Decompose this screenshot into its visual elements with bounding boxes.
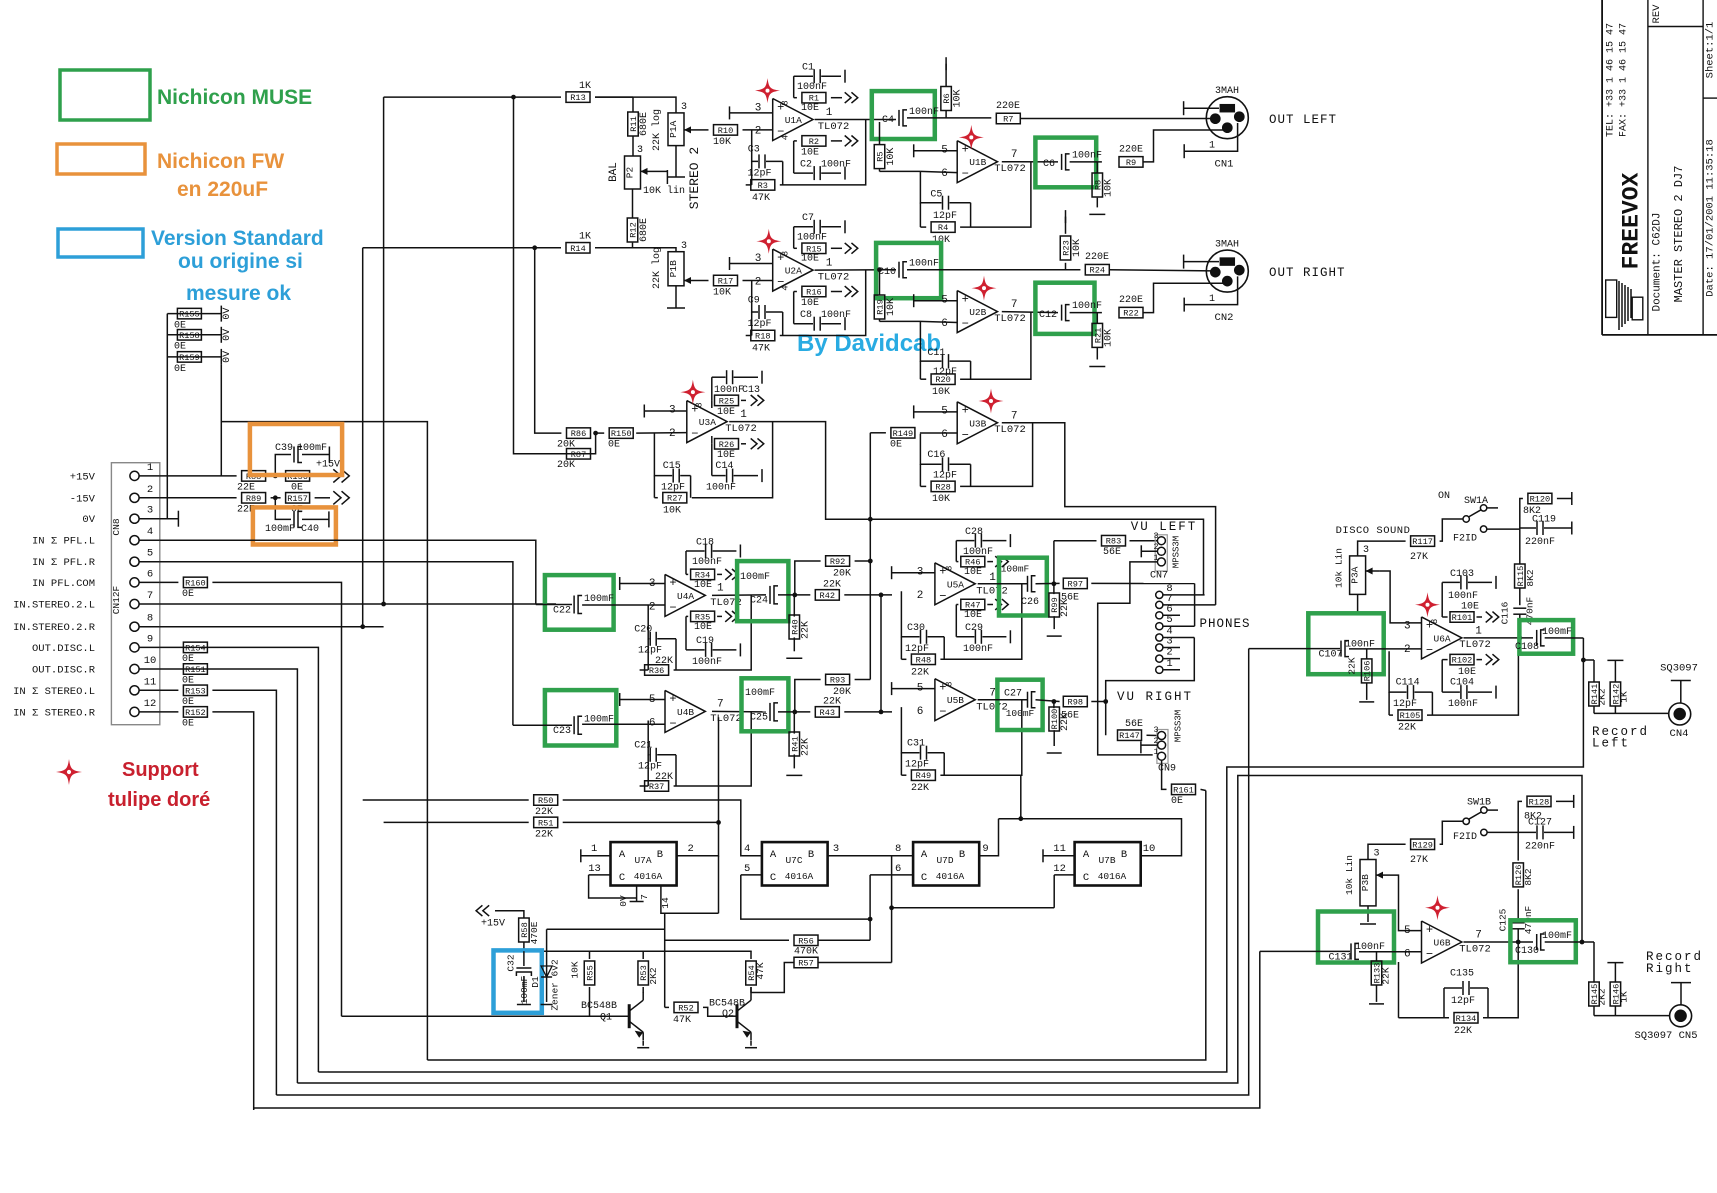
svg-text:22K: 22K [535, 807, 553, 818]
XLR connector CN1 OUT LEFT [1206, 97, 1248, 139]
svg-text:R13: R13 [570, 93, 585, 103]
svg-text:R46: R46 [965, 558, 980, 568]
svg-text:TL072: TL072 [710, 713, 742, 725]
resistor R42 22K [815, 590, 839, 601]
svg-text:1: 1 [740, 409, 747, 421]
svg-text:100nF: 100nF [909, 107, 939, 118]
wire R14 to P1B top [595, 248, 676, 252]
svg-text:U4B: U4B [677, 707, 694, 718]
svg-text:10: 10 [144, 655, 157, 667]
svg-text:0E: 0E [182, 676, 194, 687]
svg-text:10K: 10K [932, 387, 950, 398]
off-page arrow R25 [751, 395, 757, 406]
svg-text:R105: R105 [1400, 711, 1421, 721]
wire R155-R159 left bus down to pin3 [166, 314, 168, 519]
svg-text:100nF: 100nF [909, 259, 939, 270]
svg-text:P2: P2 [625, 167, 636, 179]
resistor R152 0E [183, 707, 207, 718]
tick CN7 pin2 [1140, 545, 1142, 557]
star support U3A [680, 380, 705, 405]
svg-text:R48: R48 [916, 655, 931, 665]
svg-text:C: C [1083, 872, 1089, 884]
svg-text:22K: 22K [1381, 967, 1392, 984]
XLR connector CN2 OUT RIGHT [1206, 250, 1248, 292]
0V tick under U7A pin7 [636, 886, 638, 902]
star support U1A [755, 78, 780, 103]
svg-text:R19: R19 [876, 299, 886, 314]
pin6 U7D wire down [869, 875, 871, 919]
resistor R102 10E [1442, 659, 1447, 661]
phones pin 1 [1156, 666, 1163, 673]
green highlight box C24 [737, 561, 788, 621]
svg-text:−: − [962, 317, 969, 331]
capacitor C130 100mF [1536, 934, 1538, 950]
green highlight box C22 [545, 575, 614, 630]
svg-text:By Davidcab: By Davidcab [797, 330, 941, 357]
connector pin 5 IN Σ PFL.R [130, 557, 139, 566]
resistor R150 0E [609, 428, 633, 439]
svg-text:8K2: 8K2 [1523, 868, 1534, 885]
svg-text:C131: C131 [1328, 952, 1352, 963]
svg-text:TL072: TL072 [725, 423, 757, 435]
svg-text:100nF: 100nF [1072, 151, 1102, 162]
svg-text:0E: 0E [1171, 796, 1183, 807]
svg-text:−: − [691, 427, 698, 441]
svg-text:22K: 22K [823, 579, 841, 590]
svg-text:0E: 0E [890, 439, 902, 450]
resistor R1 10E [793, 76, 795, 98]
wire R117 to SW1A [1440, 519, 1463, 541]
svg-text:MPSS3M: MPSS3M [1174, 710, 1184, 742]
wire from U5A node to R83 [1054, 540, 1097, 542]
resistor R157 0E [286, 493, 310, 504]
svg-text:C108: C108 [1515, 642, 1539, 653]
resistor R24 220E [1085, 264, 1109, 275]
wire 0V rail down from ticks [220, 365, 222, 476]
capacitor C107 100nF [1249, 648, 1340, 650]
svg-text:Zener 6v2: Zener 6v2 [550, 959, 561, 1011]
resistor R97 56E [1063, 578, 1087, 589]
capacitor C21 12pF feedback U4B [648, 721, 649, 755]
resistor R133 22K [1371, 961, 1382, 985]
svg-text:P3A: P3A [1350, 566, 1361, 583]
svg-text:U6A: U6A [1434, 633, 1451, 644]
svg-text:4: 4 [744, 843, 750, 855]
wire R97 to phones pin5 bracket [1091, 582, 1194, 584]
svg-text:10K: 10K [953, 89, 964, 107]
svg-text:10E: 10E [801, 103, 819, 114]
op-amp U6B TL072 [1422, 921, 1462, 963]
svg-text:CN8: CN8 [111, 518, 122, 535]
svg-text:Sheet:1/1: Sheet:1/1 [1705, 22, 1717, 79]
svg-text:2: 2 [688, 843, 694, 855]
svg-text:0E: 0E [608, 440, 620, 451]
svg-text:3MAH: 3MAH [1215, 240, 1239, 251]
svg-text:C6: C6 [1043, 159, 1055, 170]
wire F2ID to R115 top [1487, 528, 1520, 530]
svg-text:IN Σ PFL.R: IN Σ PFL.R [32, 557, 96, 569]
capacitor C15 12pF feedback U3A [654, 433, 672, 476]
wire stereo2 left feed up [383, 97, 385, 604]
svg-text:C: C [921, 872, 927, 884]
wire pin1 +15V [160, 475, 237, 477]
svg-text:IN PFL.COM: IN PFL.COM [32, 578, 95, 590]
wire R83 to CN7 pin3 [1130, 540, 1158, 542]
tick CN2 upper to pin rect [1183, 255, 1185, 269]
wire U1B path from R5 [880, 170, 921, 172]
wire R129 to SW1B [1440, 821, 1463, 844]
connector pin 12 IN Σ STEREO.R [130, 707, 139, 716]
svg-text:R34: R34 [695, 570, 710, 580]
wire pin6 IN PFL.COM [160, 581, 179, 583]
svg-text:C13: C13 [742, 385, 760, 396]
phones pin 6 [1156, 612, 1163, 619]
off-page arrow R15 [845, 243, 851, 254]
svg-text:R3: R3 [758, 181, 768, 191]
svg-text:FREEVOX: FREEVOX [1619, 172, 1645, 269]
svg-text:R98: R98 [1068, 698, 1083, 708]
op-amp U6A TL072 [1422, 617, 1462, 659]
wire pin3 0V [160, 518, 179, 520]
IC U7D 4016A [913, 842, 979, 885]
svg-text:220E: 220E [1085, 252, 1109, 263]
svg-text:R151: R151 [185, 665, 206, 675]
svg-text:U1A: U1A [785, 115, 802, 126]
capacitor C11 12pF feedback U2B [920, 321, 941, 361]
wire phones pin6 stub [1163, 614, 1180, 616]
svg-text:R17: R17 [718, 277, 733, 287]
tick CN9 pin2 [1140, 741, 1142, 753]
wiper P3A to U6A pin3 [1366, 570, 1380, 572]
svg-text:1: 1 [826, 107, 833, 119]
svg-text:C28: C28 [965, 527, 983, 538]
svg-text:C116: C116 [1499, 601, 1510, 624]
svg-text:7: 7 [1475, 930, 1482, 942]
capacitor C1 100nF [794, 75, 813, 77]
svg-text:470E: 470E [529, 921, 540, 944]
svg-text:U1B: U1B [969, 157, 986, 168]
star support U2A [756, 229, 781, 254]
svg-text:R129: R129 [1412, 840, 1433, 850]
svg-text:3: 3 [1363, 545, 1369, 556]
svg-text:2: 2 [649, 602, 656, 614]
svg-text:R117: R117 [1412, 537, 1433, 547]
wire pin10 OUT.DISC.R [160, 669, 298, 1083]
wire pin5 IN PFL.R [160, 562, 513, 726]
wire +15V to R58 [495, 911, 524, 918]
resistor R155 [167, 313, 221, 315]
svg-text:R18: R18 [755, 332, 770, 342]
svg-text:1: 1 [1475, 625, 1482, 637]
svg-text:10: 10 [1143, 843, 1156, 855]
svg-text:10k Lin: 10k Lin [1334, 548, 1345, 588]
svg-text:R55: R55 [586, 965, 596, 980]
svg-text:100nF: 100nF [963, 644, 993, 655]
svg-text:C127: C127 [1528, 818, 1552, 829]
resistor R43 22K [815, 707, 839, 718]
resistor R158 [167, 334, 221, 336]
wire CN7 pin1 to CN9 pin1 [1098, 562, 1158, 755]
resistor R26 10E [711, 436, 713, 444]
resistor R159 [167, 356, 221, 358]
rail A under 4016 [892, 907, 1055, 909]
svg-text:22K: 22K [1346, 657, 1357, 674]
svg-text:R4: R4 [938, 223, 948, 233]
wire R42 to U5A pin2 [844, 594, 892, 596]
capacitor C27 100mF [978, 699, 1027, 701]
svg-text:2: 2 [917, 590, 924, 602]
svg-text:C5: C5 [930, 190, 942, 201]
svg-text:3: 3 [681, 241, 687, 252]
svg-text:100nF: 100nF [821, 310, 851, 321]
svg-text:100mF: 100mF [740, 572, 770, 583]
wire junction to R86 [535, 248, 562, 433]
svg-text:TL072: TL072 [976, 585, 1008, 597]
wire R10 to U1A pin2 [743, 129, 773, 131]
op-amp U2B TL072 [957, 291, 997, 333]
svg-text:+: + [962, 292, 969, 306]
wire C6 to R9 [1070, 161, 1102, 163]
svg-text:−: − [939, 589, 946, 603]
svg-text:B: B [657, 849, 663, 861]
svg-text:1: 1 [1166, 658, 1172, 670]
RCA connector CN5 record right [1670, 1005, 1692, 1027]
wire U4A output [712, 594, 766, 597]
svg-text:−: − [939, 705, 946, 719]
tick input pin 3 of U4A [619, 577, 621, 590]
svg-text:22K: 22K [801, 738, 812, 756]
svg-text:C: C [619, 872, 625, 884]
svg-text:R49: R49 [916, 771, 931, 781]
wire pin9 OUT.DISC.L [160, 647, 319, 1072]
capacitor C5 12pF feedback U1B [920, 171, 941, 202]
svg-text:3: 3 [1373, 849, 1379, 860]
svg-text:7: 7 [639, 894, 650, 900]
wire R160 down to Q1 base [212, 582, 341, 1016]
resistor R156 0E [286, 471, 310, 482]
svg-text:7: 7 [717, 699, 724, 711]
wire C4 to R7 OUT LEFT rail [907, 117, 991, 119]
svg-text:0V: 0V [82, 514, 95, 526]
wire R92 to bus [868, 559, 873, 564]
capacitor C135 12pF feedback U6B [1398, 962, 1400, 1018]
title block frame [1601, 0, 1603, 335]
svg-text:SW1B: SW1B [1467, 798, 1491, 809]
svg-text:10K: 10K [713, 288, 731, 299]
node 0V pin of R159 [220, 349, 222, 365]
svg-text:1: 1 [717, 583, 724, 595]
capacitor C4 100mF [898, 110, 900, 126]
potentiometer P1B 22K log [668, 252, 684, 286]
tick input pin 3 of U2A [729, 257, 731, 270]
svg-text:R134: R134 [1456, 1014, 1477, 1024]
resistor R34 10E [685, 551, 687, 574]
wire record right to CN5 [1594, 1015, 1670, 1017]
wire U6A output to C108 [1464, 637, 1534, 639]
op-amp U3B TL072 [957, 402, 997, 444]
svg-text:220E: 220E [996, 101, 1020, 112]
svg-text:−: − [962, 428, 969, 442]
wire R129 to P3B top [1368, 844, 1406, 859]
capacitor C39 100mF [275, 455, 291, 476]
resistor R10 10K [714, 125, 738, 135]
svg-text:2: 2 [755, 276, 762, 288]
wire R150 to U3A pin2 [636, 432, 687, 435]
svg-text:1K: 1K [1619, 991, 1630, 1003]
off-page arrow R47 [995, 599, 1001, 610]
svg-text:3: 3 [637, 145, 643, 156]
capacitor C125 470nF [1512, 922, 1525, 924]
svg-text:ON: ON [1438, 491, 1450, 502]
svg-text:STEREO 2: STEREO 2 [687, 147, 702, 209]
wire bus B5 IN STEREO.R to C131 [254, 951, 1260, 1108]
wire U3A out to R92/R93 bus [869, 433, 871, 680]
svg-text:10K: 10K [663, 505, 681, 516]
legend orange box Nichicon FW [57, 144, 145, 174]
svg-text:OUT RIGHT: OUT RIGHT [1269, 266, 1346, 280]
tick below P1A [675, 146, 677, 177]
resistor R115 8K2 [1519, 529, 1521, 564]
wiper P3B to U6B pin5 [1376, 874, 1390, 876]
svg-text:0V: 0V [618, 895, 629, 907]
svg-text:TL072: TL072 [994, 424, 1026, 436]
svg-text:CN2: CN2 [1215, 312, 1234, 324]
svg-text:12pF: 12pF [1393, 699, 1417, 710]
rail +15V zener block [524, 950, 752, 952]
svg-text:A: A [619, 849, 626, 861]
svg-text:IN Σ STEREO.R: IN Σ STEREO.R [13, 707, 96, 719]
svg-text:100nF: 100nF [797, 82, 827, 93]
svg-text:4016A: 4016A [936, 871, 965, 882]
green highlight box C108 [1519, 620, 1573, 654]
svg-text:13: 13 [588, 863, 601, 875]
tick input pin 5 of U5B [891, 682, 893, 695]
resistor R48 22K feedback U5A [900, 637, 902, 660]
svg-text:R9: R9 [1126, 158, 1136, 168]
resistor R47 10E [956, 604, 958, 606]
tick input pin 5 of U4B [619, 693, 621, 706]
svg-text:220nF: 220nF [1525, 537, 1555, 548]
svg-text:IN Σ STEREO.L: IN Σ STEREO.L [13, 686, 95, 698]
resistor R87 20K [567, 449, 591, 460]
svg-text:R87: R87 [571, 450, 586, 460]
resistor R149 0E [870, 432, 886, 434]
resistor R8 10K [1096, 162, 1098, 173]
resistor R25 10E [711, 377, 713, 400]
svg-text:8: 8 [781, 100, 791, 105]
svg-text:tulipe doré: tulipe doré [108, 789, 210, 811]
svg-text:C18: C18 [696, 537, 714, 548]
capacitor C108 100mF [1536, 630, 1538, 646]
svg-text:10K: 10K [570, 961, 581, 978]
green highlight box C27 [997, 680, 1042, 730]
resistor R153 0E [183, 685, 207, 696]
resistor R17 10K [714, 275, 738, 286]
resistor R13 1K [566, 92, 590, 103]
svg-text:VU RIGHT: VU RIGHT [1117, 690, 1193, 704]
svg-text:5: 5 [744, 863, 750, 875]
off-page arrow +15V net [315, 475, 330, 477]
svg-text:R157: R157 [287, 494, 308, 504]
svg-text:220E: 220E [1119, 295, 1143, 306]
wire R87 to R86 join [595, 433, 597, 454]
svg-text:22K log: 22K log [651, 247, 663, 289]
connector pin 9 OUT.DISC.L [130, 643, 139, 652]
svg-text:10K: 10K [713, 137, 731, 148]
svg-text:TL072: TL072 [818, 272, 850, 284]
svg-text:4016A: 4016A [1098, 871, 1127, 882]
wire phones lower bracket [1106, 638, 1195, 736]
svg-text:220E: 220E [1119, 144, 1143, 155]
orange highlight box C39 [250, 424, 342, 475]
svg-text:−: − [669, 717, 676, 731]
capacitor C9 12pF feedback [752, 281, 758, 313]
svg-text:+: + [669, 576, 676, 590]
wire CN9 pin1 to R161 [1162, 760, 1167, 789]
svg-text:C114: C114 [1396, 677, 1420, 688]
svg-text:10E: 10E [801, 147, 819, 158]
svg-text:R26: R26 [719, 440, 734, 450]
resistor R86 20K [567, 428, 591, 439]
svg-text:R89: R89 [246, 494, 261, 504]
svg-text:100nF: 100nF [706, 483, 736, 494]
svg-text:PHONES: PHONES [1199, 617, 1250, 631]
op-amp U1B TL072 [957, 141, 997, 183]
svg-text:3: 3 [147, 505, 153, 517]
wire C24 to R42 [778, 594, 810, 596]
wire phones pin3 stub [1163, 647, 1180, 649]
wire pin4 IN PFL.L [160, 540, 536, 604]
svg-text:U2B: U2B [969, 307, 986, 318]
legend blue box Version Standard [58, 229, 143, 257]
potentiometer P2 BAL 10K lin [625, 156, 641, 189]
svg-text:C40: C40 [301, 524, 319, 535]
svg-text:Right: Right [1646, 962, 1694, 976]
svg-text:R28: R28 [935, 482, 950, 492]
svg-text:+15V: +15V [481, 919, 505, 930]
wire phones pin8 lead [1163, 594, 1205, 596]
svg-text:TEL: +33 1 46 15 47: TEL: +33 1 46 15 47 [1606, 23, 1617, 137]
off-page arrow R46 [995, 556, 1001, 567]
svg-text:U4A: U4A [677, 591, 694, 602]
tick CN5 [1671, 982, 1691, 984]
rail 0V zener block [547, 928, 665, 930]
resistor R16 10E [794, 291, 797, 293]
green highlight box C12 [1035, 283, 1094, 334]
svg-text:12pF: 12pF [905, 644, 929, 655]
wire Q1 base line [342, 1015, 630, 1017]
svg-text:CN9: CN9 [1158, 764, 1176, 775]
op-amp U4A TL072 [665, 574, 705, 616]
off-page arrow R2 [845, 136, 851, 147]
svg-text:R56: R56 [798, 936, 813, 946]
svg-text:BC548B: BC548B [709, 999, 745, 1010]
svg-text:100mF: 100mF [1001, 564, 1030, 575]
svg-text:12pF: 12pF [933, 211, 957, 222]
svg-text:Left: Left [1592, 737, 1630, 751]
potentiometer P3B 10k Lin [1360, 860, 1376, 906]
svg-text:10E: 10E [1458, 667, 1476, 678]
wire R7 to XLR CN1 pin2 [1020, 118, 1212, 120]
off-page arrow R102 [1486, 654, 1492, 665]
svg-text:−: − [669, 601, 676, 615]
svg-text:U7B: U7B [1098, 855, 1115, 866]
svg-text:4: 4 [781, 135, 791, 140]
wire C10 to R24 OUT RIGHT rail [907, 269, 1080, 271]
green highlight box C130 [1510, 920, 1575, 962]
svg-text:22K: 22K [911, 667, 929, 678]
svg-text:Nichicon FW: Nichicon FW [157, 150, 284, 173]
